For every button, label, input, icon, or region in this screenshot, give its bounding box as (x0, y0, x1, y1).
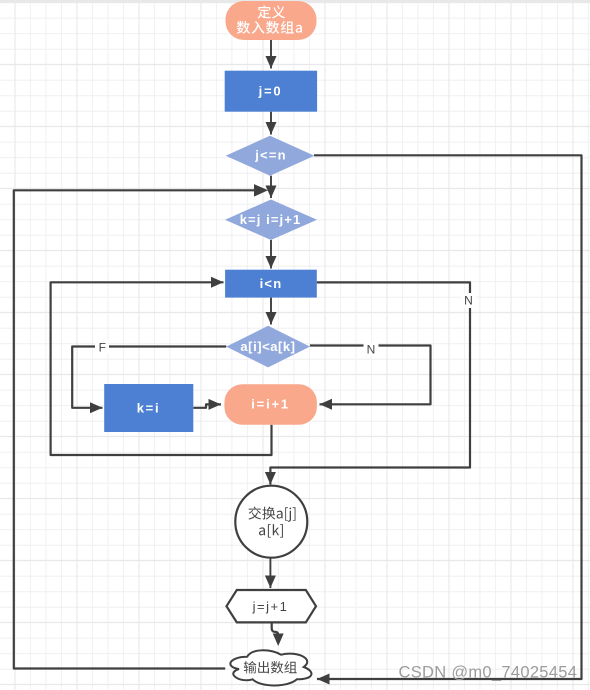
wire a[i]<a[k] N branch to i=i+1 (310, 346, 431, 405)
label N (a[i]<a[k] branch) (364, 342, 379, 356)
svg-text:i<n: i<n (260, 276, 283, 291)
svg-text:j<=n: j<=n (254, 147, 287, 162)
wire circle to hexagon (269, 558, 271, 588)
wire a[i]<a[k] F branch to k=i (72, 347, 226, 408)
wire terminal to j=0 (270, 40, 272, 69)
svg-text:j=j+1: j=j+1 (252, 599, 289, 614)
rounded box i=i+1 (224, 384, 317, 425)
svg-text:N: N (367, 343, 376, 357)
svg-text:a[i]<a[k]: a[i]<a[k] (240, 339, 295, 354)
wire cloud left loop back up to k=j junction (14, 190, 255, 668)
terminal: 定义 数入数组a (226, 1, 317, 40)
decision diamond k=j i=j+1 (225, 200, 317, 241)
process box i<n (225, 270, 317, 298)
wire diamond k=j to rect i<n (270, 240, 272, 269)
cloud 输出数组 (230, 650, 311, 685)
svg-text:CSDN @m0_74025454: CSDN @m0_74025454 (399, 663, 578, 681)
process box j=0 (225, 71, 317, 112)
svg-text:k=i: k=i (137, 400, 161, 415)
decision diamond j<=n (226, 136, 315, 176)
wire i<n N branch to circle (270, 282, 470, 484)
decision diamond a[i]<a[k] (226, 326, 310, 368)
label N (i<n branch) (461, 293, 476, 308)
svg-text:F: F (99, 340, 106, 354)
wire i=i+1 loop back to i<n (51, 282, 272, 455)
wire diamond j<=n to diamond k=j (270, 176, 272, 198)
wire hexagon to cloud (272, 622, 279, 637)
process box k=i (104, 384, 193, 432)
wire j=0 to diamond j<=n (270, 112, 272, 135)
label F (95, 340, 109, 354)
svg-text:i=i+1: i=i+1 (251, 397, 290, 412)
svg-text:k=j i=j+1: k=j i=j+1 (240, 212, 302, 227)
svg-text:N: N (464, 294, 473, 308)
wire rect i<n to diamond a[i]<a[k] (270, 298, 272, 325)
circle 交换a[j] a[k] (235, 486, 307, 558)
hexagon j=j+1 (227, 590, 317, 622)
wire j<=n false branch to cloud (right loop) (314, 155, 582, 679)
svg-text:j=0: j=0 (258, 83, 283, 98)
wire k=i to i=i+1 (193, 404, 221, 407)
